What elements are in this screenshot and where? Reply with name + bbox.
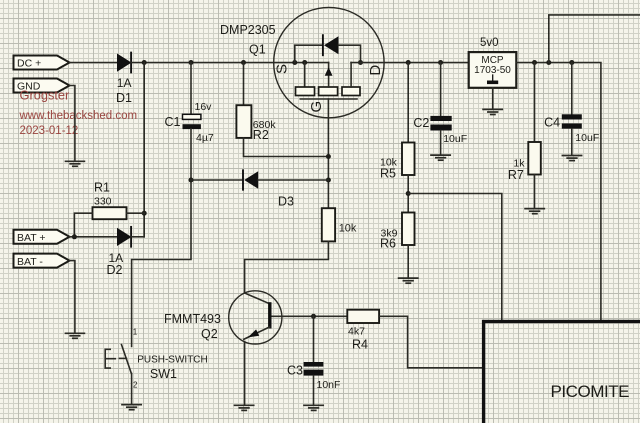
wire Q2 base to R4: [272, 315, 347, 317]
wire BAT+ to D2: [70, 236, 118, 238]
svg-text:DMP2305: DMP2305: [220, 23, 276, 37]
ground (SW1): [122, 405, 141, 410]
diode D2: [118, 227, 132, 247]
ground (R7): [525, 209, 544, 214]
wire 5V rail: [516, 63, 601, 321]
svg-text:1: 1: [133, 328, 138, 337]
capacitor C2: [430, 63, 451, 155]
junction R1 right: [142, 211, 147, 216]
svg-text:16v: 16v: [195, 101, 213, 113]
svg-text:R2: R2: [253, 128, 269, 142]
wire D2 cathode: [131, 236, 144, 238]
svg-text:C3: C3: [287, 364, 303, 378]
svg-text:330: 330: [94, 196, 112, 208]
junction gate/R2: [326, 154, 331, 159]
svg-text:10k: 10k: [339, 223, 357, 235]
wire battery-rail vertical (D1/D2 cathodes): [143, 63, 145, 237]
svg-text:4k7: 4k7: [348, 325, 365, 337]
wire R3 bottom to Q2 collector: [245, 241, 329, 293]
resistor R2: [236, 63, 251, 138]
svg-text:R1: R1: [94, 181, 110, 195]
junction C4 top: [569, 60, 574, 65]
svg-text:R4: R4: [352, 338, 368, 352]
svg-text:D1: D1: [116, 91, 132, 105]
wire R4 to PICOMITE: [379, 316, 484, 368]
svg-text:BAT -: BAT -: [17, 256, 43, 268]
Q1 gate plates: [304, 63, 306, 88]
resistor R4: [347, 310, 379, 323]
junction gate/D3: [326, 178, 331, 183]
Q1 substrate arrow: [328, 63, 330, 88]
svg-text:10uF: 10uF: [443, 133, 467, 145]
transistor Q2 FMMT493: [229, 291, 282, 344]
regulator U1 MCP1703-50: [469, 52, 517, 88]
ground (Q2 emitter): [235, 405, 254, 410]
ground (GND connector): [66, 161, 85, 166]
svg-text:Q2: Q2: [201, 327, 218, 341]
wire BAT- to ground: [70, 261, 75, 333]
connector BAT+: [14, 230, 70, 244]
capacitor C1: [183, 63, 201, 130]
junction at D1 cathode: [142, 60, 147, 65]
module PICOMITE: [484, 322, 640, 423]
ground (regulator): [483, 109, 502, 114]
resistor R3 10k: [322, 208, 335, 241]
svg-text:PUSH-SWITCH: PUSH-SWITCH: [137, 354, 208, 365]
svg-text:SW1: SW1: [150, 367, 177, 381]
wire 5V to top right: [549, 15, 640, 63]
junction 5V branch up: [546, 60, 551, 65]
svg-text:10nF: 10nF: [317, 379, 341, 391]
resistor R1: [74, 207, 144, 237]
connector BAT-: [14, 254, 70, 268]
junction R5 top: [406, 60, 411, 65]
wire GND connector to ground: [70, 86, 75, 161]
wire D3 cathode side: [191, 179, 243, 181]
junction C1 top: [189, 60, 194, 65]
Q1 source junction dots: [292, 60, 297, 65]
ground (C3): [304, 405, 323, 410]
diode D1: [118, 53, 132, 73]
junction base/C3: [311, 314, 316, 319]
Q1 drain junction dot: [358, 60, 363, 65]
svg-text:Grogster: Grogster: [20, 87, 71, 102]
resistor R5: [402, 63, 415, 213]
svg-text:D3: D3: [278, 194, 294, 208]
wire R2 bottom to gate line: [244, 138, 329, 157]
wire SW1 to ground: [131, 374, 133, 405]
svg-text:2: 2: [133, 381, 138, 390]
wire Q1 gate down: [327, 99, 329, 208]
svg-text:R7: R7: [508, 168, 524, 182]
junction C2 top: [438, 60, 443, 65]
junction R2 top: [241, 60, 246, 65]
svg-text:C4: C4: [544, 115, 560, 129]
connector DC+: [14, 56, 70, 70]
svg-text:PICOMITE: PICOMITE: [551, 382, 630, 401]
wire rail D1 to Q1 source: [131, 62, 329, 64]
switch SW1: [105, 345, 131, 374]
junction R1 left: [72, 234, 77, 239]
capacitor C4: [562, 63, 582, 155]
diode D3: [243, 170, 258, 189]
svg-text:D: D: [367, 65, 384, 76]
wire DC+ to D1: [70, 62, 118, 64]
ground (BAT-): [66, 333, 85, 338]
capacitor C3: [304, 316, 324, 404]
svg-text:R6: R6: [380, 236, 396, 250]
svg-text:www.thebackshed.com: www.thebackshed.com: [19, 110, 138, 122]
wire rail Q1 drain to regulator: [351, 62, 469, 64]
Q1 body diode: [295, 45, 323, 62]
svg-text:S: S: [274, 64, 291, 74]
svg-text:Q1: Q1: [249, 43, 266, 57]
svg-text:G: G: [308, 101, 325, 113]
ground (R6): [399, 278, 418, 283]
ground (C2): [431, 155, 450, 160]
svg-text:5v0: 5v0: [480, 37, 499, 49]
junction D3 cathode wire: [189, 178, 194, 183]
Q1 gate bar: [300, 98, 357, 100]
svg-text:2023-01-12: 2023-01-12: [20, 125, 79, 137]
wire D3 anode side: [258, 179, 328, 181]
svg-text:1703-50: 1703-50: [474, 65, 511, 76]
connector GND: [14, 79, 70, 93]
svg-text:10uF: 10uF: [575, 132, 599, 144]
junction R5/R6: [406, 191, 411, 196]
svg-text:C1: C1: [165, 115, 181, 129]
svg-text:4µ7: 4µ7: [196, 132, 214, 144]
resistor R6: [402, 213, 415, 278]
wire Q2 emitter to ground: [244, 342, 246, 405]
wire regulator to ground: [492, 88, 494, 109]
mosfet Q1 DMP2305: [274, 7, 384, 117]
svg-text:1A: 1A: [117, 76, 132, 90]
svg-text:R5: R5: [380, 167, 396, 181]
resistor R7: [528, 63, 541, 209]
wire divider to PICOMITE: [408, 194, 502, 321]
svg-text:BAT +: BAT +: [17, 232, 46, 244]
ground (C4): [562, 156, 581, 161]
svg-text:D2: D2: [107, 263, 123, 277]
svg-text:FMMT493: FMMT493: [164, 312, 221, 326]
wire C1 bottom to switch net: [132, 129, 191, 346]
svg-text:DC +: DC +: [17, 58, 41, 70]
svg-text:C2: C2: [413, 116, 429, 130]
junction R7 top: [532, 60, 537, 65]
